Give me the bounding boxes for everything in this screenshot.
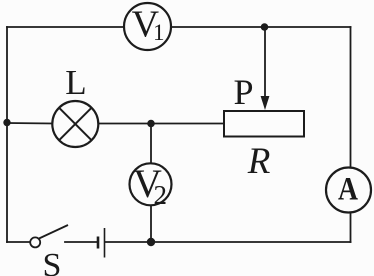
node dot middle (V2 top junction) [147,120,155,128]
svg-text:A: A [338,172,358,208]
wire wiper vertical [264,27,266,98]
wire middle left (node to lamp) [7,122,53,125]
svg-text:2: 2 [154,180,168,210]
wire top-left segment [7,26,124,28]
wire right vertical upper [350,27,352,168]
voltmeter V2 [130,161,172,210]
wire left vertical [6,27,8,242]
wire V2 branch upper [150,124,152,164]
svg-text:R: R [247,141,271,182]
wire right vertical lower [350,212,352,242]
switch S [30,225,68,247]
voltmeter V1 [124,3,171,50]
wire bottom-left stub to switch [7,241,30,243]
battery cell [98,228,105,258]
node dot bottom (V2 bottom junction) [147,238,155,246]
wiper arrowhead P [261,96,270,110]
ammeter A [326,168,371,213]
svg-text:S: S [43,247,62,276]
node dot top (wiper junction) [261,23,269,31]
node dot left (lamp branch) [3,119,10,126]
lamp L [52,101,98,147]
wire top-right segment [171,26,351,28]
svg-text:L: L [65,63,86,102]
wire lamp to rheostat [98,123,226,125]
rheostat R [224,111,304,137]
wire bottom-right segment [105,241,351,243]
wire V2 branch lower [150,206,152,243]
svg-text:1: 1 [153,20,165,45]
svg-text:P: P [233,72,253,112]
wire switch to battery [65,241,98,243]
